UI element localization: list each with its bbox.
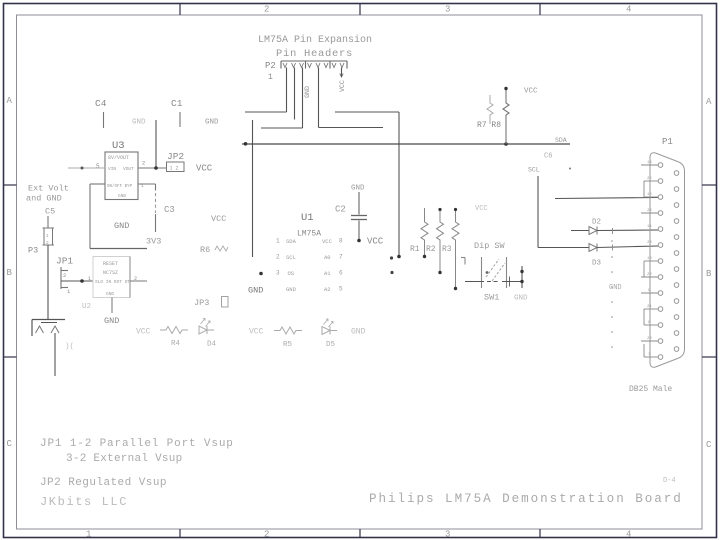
svg-text:3-2 External Vsup: 3-2 External Vsup	[66, 453, 182, 465]
frame row letters right	[706, 97, 712, 450]
svg-text:SLO IN RST OT: SLO IN RST OT	[95, 279, 130, 285]
svg-text:VCC: VCC	[211, 214, 226, 224]
wire D2 to P1	[597, 229, 658, 232]
DIP switch SW1 body	[461, 257, 507, 288]
wire P2 pin to SDA bus	[245, 68, 287, 113]
svg-text:VCC: VCC	[196, 164, 213, 174]
U1 left pin numbers	[276, 238, 280, 277]
svg-text:22: 22	[647, 273, 652, 277]
svg-text:R2: R2	[426, 245, 436, 254]
svg-text:24: 24	[647, 209, 652, 213]
svg-text:R3: R3	[442, 245, 452, 254]
wire speck near SDA end	[569, 168, 571, 170]
svg-text:C: C	[706, 440, 712, 450]
resistor R4	[160, 327, 188, 334]
svg-text:JP2 Regulated Vsup: JP2 Regulated Vsup	[40, 477, 167, 489]
svg-text:GND: GND	[248, 286, 263, 296]
svg-text:6: 6	[339, 270, 343, 277]
svg-text:VOUT: VOUT	[123, 166, 134, 172]
wire SDA branch to D2	[571, 230, 589, 232]
resistor R6 scribble	[215, 246, 228, 251]
wire U3 input stub	[68, 167, 105, 169]
svg-text:D4: D4	[207, 341, 217, 349]
diode D2	[589, 227, 597, 235]
svg-text:12: 12	[647, 193, 652, 197]
regulator U3 inner text	[107, 155, 134, 199]
svg-text:1: 1	[88, 276, 91, 282]
svg-text:5: 5	[96, 163, 100, 170]
junction A1 row mid	[486, 271, 489, 274]
svg-text:Ext Volt: Ext Volt	[28, 184, 69, 194]
svg-text:U1: U1	[301, 212, 314, 224]
junction R3 top	[454, 208, 457, 211]
junction U1 OS pin	[259, 272, 263, 276]
svg-text:3: 3	[276, 270, 280, 277]
svg-text:3: 3	[445, 530, 450, 540]
svg-text:SDA: SDA	[286, 238, 297, 245]
svg-text:P3: P3	[28, 246, 38, 256]
svg-text:GND: GND	[205, 119, 219, 127]
capacitor C1 lead	[179, 112, 181, 127]
svg-text:SDA: SDA	[555, 137, 567, 144]
svg-text:1: 1	[86, 530, 91, 540]
reset IC U2 body	[93, 257, 130, 298]
svg-text:GND: GND	[104, 316, 119, 326]
resistor R8	[503, 89, 509, 145]
svg-text:GND: GND	[118, 193, 126, 199]
wire U2 ground	[111, 298, 113, 314]
svg-text:VIN: VIN	[108, 166, 116, 172]
svg-text:U3: U3	[112, 140, 125, 152]
U1 right pin numbers	[339, 238, 343, 293]
title note: LM75A Pin Expansion Pin Headers	[258, 34, 372, 60]
pin tick on D3 wire	[612, 245, 614, 251]
connector P1 DB25 shell	[650, 153, 685, 368]
svg-text:A: A	[706, 97, 712, 107]
svg-text:VCC: VCC	[339, 80, 346, 92]
svg-text:9: 9	[648, 289, 651, 293]
resistor R7	[487, 95, 493, 124]
svg-text:11: 11	[647, 225, 652, 229]
junction A1 row left	[390, 271, 393, 274]
svg-text:R6: R6	[200, 245, 210, 255]
svg-text:2: 2	[276, 254, 280, 261]
pin number specks column	[611, 240, 613, 348]
svg-text:21: 21	[647, 305, 652, 309]
wire D3 to P1	[597, 246, 658, 248]
junction A0 row left	[390, 256, 393, 259]
svg-text:RESET: RESET	[103, 261, 118, 267]
svg-text:1: 1	[67, 288, 71, 295]
svg-text:D2: D2	[592, 219, 601, 227]
svg-text:P1: P1	[662, 137, 673, 147]
svg-text:7: 7	[339, 254, 343, 261]
svg-text:JKbits LLC: JKbits LLC	[40, 495, 128, 509]
connector P2 header bar	[281, 61, 347, 69]
frame column numbers top	[264, 5, 631, 15]
svg-text:4: 4	[626, 530, 631, 540]
svg-text:ON/OFF BYP: ON/OFF BYP	[107, 184, 133, 189]
connector P1 pin stubs	[641, 165, 658, 357]
svg-text:P2: P2	[265, 61, 276, 71]
junction R1 bottom	[423, 255, 426, 258]
wire JP1 to U2	[61, 280, 93, 282]
junction SW1 right bottom	[520, 280, 523, 283]
wire supply entry down	[54, 333, 56, 376]
pin tick on D2 wire	[612, 228, 614, 234]
regulator U3 body	[105, 152, 138, 200]
junction U3 input	[81, 167, 84, 170]
wire C1 branch down to U3 output	[155, 120, 157, 168]
junction SW1 right top	[520, 270, 523, 273]
junction bus R8	[504, 142, 508, 146]
svg-text:R5: R5	[283, 341, 293, 349]
svg-text:B: B	[7, 268, 13, 278]
svg-text:2: 2	[63, 272, 66, 279]
svg-text:3V3: 3V3	[146, 237, 161, 247]
junction U3 output	[154, 166, 158, 170]
svg-text:8: 8	[339, 238, 343, 245]
junction JP1 wire	[80, 279, 84, 283]
svg-text:2: 2	[142, 160, 145, 167]
svg-text:SCL: SCL	[528, 167, 540, 174]
wire SW1 right leg	[521, 266, 523, 288]
connector P2 pin chevrons	[283, 63, 344, 68]
svg-text:10: 10	[647, 257, 652, 261]
svg-text:1: 1	[268, 73, 273, 82]
junction C2 bottom	[357, 239, 361, 243]
svg-text:VCC: VCC	[524, 88, 538, 96]
svg-text:R7 R8: R7 R8	[477, 121, 501, 130]
svg-text:8V/VOUT: 8V/VOUT	[108, 155, 129, 161]
svg-text:VCC: VCC	[322, 238, 333, 245]
resistor R2	[437, 210, 444, 273]
svg-text:13: 13	[647, 161, 652, 165]
svg-text:C1: C1	[171, 98, 183, 109]
wire SW1 bottom rail	[465, 277, 523, 287]
svg-text:GND: GND	[304, 86, 311, 98]
svg-text:GND: GND	[132, 119, 146, 127]
wire P2 pin comb right	[319, 68, 384, 128]
svg-text:D3: D3	[592, 260, 602, 268]
junction R2 top	[438, 208, 441, 211]
wire port line to P1 pin	[555, 198, 658, 199]
svg-text:Pin Headers: Pin Headers	[276, 48, 353, 60]
U1 right pin names	[322, 238, 333, 293]
svg-text:C4: C4	[95, 98, 107, 109]
svg-text:JP3: JP3	[194, 298, 209, 308]
junction A0 row at header drop	[397, 255, 401, 259]
capacitor C4 lead	[103, 112, 105, 128]
resistor R5	[274, 327, 302, 334]
wire P2 pin stub	[294, 68, 296, 120]
connector P1 pin numbers	[647, 161, 652, 357]
wire C5 to P3	[47, 216, 49, 228]
svg-text:C5: C5	[45, 207, 55, 217]
power stub VCC on P2	[340, 68, 343, 78]
svg-text:5: 5	[339, 286, 343, 293]
svg-text:C2: C2	[335, 205, 346, 215]
svg-text:B: B	[706, 269, 712, 279]
svg-text:)(: )(	[65, 343, 74, 351]
svg-text:25: 25	[647, 177, 652, 181]
jumper JP2 body	[167, 162, 185, 172]
svg-text:1: 1	[276, 238, 280, 245]
svg-text:U2: U2	[82, 303, 91, 311]
jumper JP1 header	[61, 267, 68, 289]
svg-text:A2: A2	[324, 286, 331, 293]
svg-text:3: 3	[445, 5, 450, 15]
svg-text:JP1 1-2 Parallel Port Vsup: JP1 1-2 Parallel Port Vsup	[40, 438, 234, 450]
svg-text:GND: GND	[351, 185, 365, 193]
svg-text:OS: OS	[288, 270, 295, 277]
svg-text:VCC: VCC	[136, 328, 151, 337]
frame column numbers bottom	[86, 530, 631, 540]
svg-text:A: A	[7, 96, 13, 106]
svg-text:Dip SW: Dip SW	[474, 241, 506, 251]
svg-text:1: 1	[46, 233, 49, 239]
svg-text:Philips LM75A Demonstration Bo: Philips LM75A Demonstration Board	[369, 492, 683, 506]
svg-text:VCC: VCC	[249, 328, 264, 337]
supply entry pin arrows	[36, 326, 60, 333]
svg-text:D-4: D-4	[663, 477, 676, 485]
svg-text:VCC: VCC	[475, 205, 488, 213]
svg-text:23: 23	[647, 241, 652, 245]
svg-text:8: 8	[648, 321, 651, 325]
LED D5	[322, 319, 337, 335]
wire header to bus corner	[335, 112, 399, 257]
wire P3 down to supply entry	[47, 245, 49, 320]
svg-text:LM75A Pin Expansion: LM75A Pin Expansion	[258, 34, 372, 46]
svg-text:GND: GND	[106, 291, 114, 297]
svg-text:2: 2	[264, 5, 269, 15]
svg-text:DB25 Male: DB25 Male	[629, 385, 672, 394]
svg-text:JP2: JP2	[167, 151, 184, 162]
svg-text:R4: R4	[171, 340, 181, 348]
resistor R3	[452, 210, 459, 289]
wire SCL drop to D3	[538, 176, 589, 248]
svg-text:and GND: and GND	[26, 194, 62, 204]
DIP switch SW1 hatch	[486, 259, 505, 281]
svg-text:JP1: JP1	[56, 256, 73, 267]
svg-text:C: C	[7, 439, 13, 449]
junction R3 bottom	[454, 287, 457, 290]
svg-text:4: 4	[626, 5, 631, 15]
connector P1 gang brackets	[644, 181, 658, 357]
connector P1 left pin circles	[658, 163, 663, 360]
connector P1 right pin circles	[674, 171, 679, 352]
svg-text:20: 20	[647, 337, 652, 341]
wire U2 output	[130, 280, 147, 282]
note Ext Volt and GND	[26, 184, 69, 204]
svg-text:GND: GND	[609, 284, 622, 292]
svg-text:A1: A1	[324, 270, 331, 277]
frame row letters left	[7, 96, 13, 449]
svg-text:GND: GND	[351, 328, 366, 337]
svg-text:2: 2	[264, 530, 269, 540]
wire U3 output to JP2	[138, 167, 167, 169]
resistor R1	[421, 208, 428, 257]
svg-text:D5: D5	[326, 341, 336, 349]
wire SDA rail to U1	[252, 120, 254, 257]
LED D4	[199, 319, 214, 335]
reset IC U2 text	[95, 261, 130, 297]
R1 R2 R3 labels	[410, 245, 452, 254]
svg-text:GND: GND	[514, 295, 528, 303]
supply entry bar	[32, 320, 65, 337]
svg-text:1 2: 1 2	[170, 166, 179, 172]
svg-text:C3: C3	[164, 205, 175, 215]
svg-text:SW1: SW1	[484, 293, 499, 303]
connector P3 body	[43, 228, 55, 245]
diode D3	[589, 244, 597, 252]
svg-text:LM75A: LM75A	[297, 230, 321, 239]
junction R2 bottom	[438, 271, 441, 274]
svg-text:NC7SZ: NC7SZ	[103, 270, 118, 276]
svg-text:GND: GND	[114, 221, 129, 231]
svg-text:7: 7	[648, 353, 651, 357]
wire P2 pin comb left	[261, 68, 303, 129]
junction R8 top	[504, 87, 507, 90]
U1 left pin names	[286, 238, 297, 293]
junction bus left	[244, 142, 248, 146]
svg-text:VCC: VCC	[367, 237, 384, 247]
svg-text:R1: R1	[410, 245, 420, 254]
svg-text:SCL: SCL	[286, 254, 296, 261]
svg-text:C6: C6	[544, 153, 552, 161]
wire main SCL/SDA bus	[242, 143, 570, 145]
svg-text:A0: A0	[324, 254, 331, 261]
jumper JP3 body	[222, 297, 229, 308]
capacitor C2	[351, 192, 367, 240]
ground plane box around U3	[90, 184, 156, 249]
svg-text:GND: GND	[286, 286, 297, 293]
